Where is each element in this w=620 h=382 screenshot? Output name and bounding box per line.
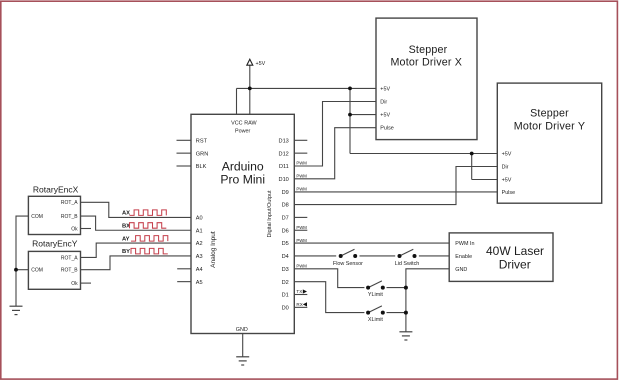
svg-text:D8: D8 — [282, 203, 289, 209]
svg-text:Flow Sensor: Flow Sensor — [333, 261, 363, 267]
svg-text:RX: RX — [296, 302, 302, 307]
svg-text:+5V: +5V — [380, 113, 390, 119]
svg-text:40W Laser: 40W Laser — [486, 244, 544, 258]
svg-text:D2: D2 — [282, 280, 289, 286]
svg-text:RotaryEncY: RotaryEncY — [32, 238, 78, 248]
svg-text:+5V: +5V — [502, 177, 512, 183]
svg-text:Ok: Ok — [71, 281, 78, 287]
svg-text:AX: AX — [122, 211, 130, 217]
svg-text:Dir: Dir — [380, 99, 387, 105]
svg-text:D3: D3 — [282, 267, 289, 273]
svg-text:A5: A5 — [196, 280, 203, 286]
svg-text:XLimit: XLimit — [368, 317, 383, 323]
svg-text:Pulse: Pulse — [380, 126, 394, 132]
svg-text:Pro Mini: Pro Mini — [220, 173, 265, 187]
svg-text:D9: D9 — [282, 190, 289, 196]
svg-text:D4: D4 — [282, 254, 289, 260]
svg-text:GRN: GRN — [196, 151, 208, 157]
svg-text:ROT_A: ROT_A — [61, 200, 78, 206]
svg-text:Dir: Dir — [502, 164, 509, 170]
svg-text:GND: GND — [236, 327, 248, 333]
svg-text:D1: D1 — [282, 293, 289, 299]
svg-text:D7: D7 — [282, 216, 289, 222]
svg-text:YLimit: YLimit — [368, 292, 383, 298]
svg-text:+5V: +5V — [502, 151, 512, 157]
svg-text:PWM: PWM — [296, 161, 307, 166]
svg-text:A1: A1 — [196, 228, 203, 234]
svg-text:D0: D0 — [282, 305, 289, 311]
svg-text:Pulse: Pulse — [502, 190, 515, 196]
svg-text:GND: GND — [455, 267, 467, 273]
svg-text:PWM In: PWM In — [455, 241, 474, 247]
svg-text:Stepper: Stepper — [409, 44, 448, 56]
svg-text:ROT_B: ROT_B — [61, 268, 78, 274]
svg-text:Ok: Ok — [71, 226, 78, 232]
svg-text:AY: AY — [122, 236, 130, 242]
svg-text:+5V: +5V — [256, 61, 266, 67]
svg-text:RAW: RAW — [244, 121, 257, 127]
svg-text:ROT_A: ROT_A — [61, 255, 78, 261]
svg-text:COM: COM — [31, 214, 43, 220]
svg-text:D10: D10 — [279, 177, 289, 183]
svg-text:PWM: PWM — [296, 264, 307, 269]
svg-text:PWM: PWM — [296, 238, 307, 243]
svg-text:ROT_B: ROT_B — [61, 214, 78, 220]
svg-text:D11: D11 — [279, 164, 289, 170]
svg-text:D5: D5 — [282, 241, 289, 247]
svg-text:Digital Input/Output: Digital Input/Output — [267, 190, 273, 238]
svg-text:Motor Driver Y: Motor Driver Y — [514, 120, 586, 132]
svg-text:RotaryEncX: RotaryEncX — [33, 185, 79, 195]
svg-text:PWM: PWM — [296, 225, 307, 230]
svg-text:A4: A4 — [196, 267, 203, 273]
svg-text:+5V: +5V — [380, 86, 390, 92]
svg-text:A0: A0 — [196, 216, 203, 222]
svg-text:RST: RST — [196, 138, 208, 144]
svg-text:COM: COM — [31, 268, 43, 274]
svg-text:BY: BY — [122, 249, 130, 255]
svg-text:A3: A3 — [196, 254, 203, 260]
svg-text:VCC: VCC — [231, 121, 242, 127]
svg-text:Enable: Enable — [455, 254, 472, 260]
svg-text:PWM: PWM — [296, 174, 307, 179]
svg-text:Driver: Driver — [499, 257, 531, 271]
svg-text:Lid Switch: Lid Switch — [395, 261, 420, 267]
svg-text:Analog Input: Analog Input — [210, 231, 217, 268]
svg-text:PWM: PWM — [296, 186, 307, 191]
svg-text:Motor Driver X: Motor Driver X — [390, 56, 462, 68]
svg-text:TX: TX — [296, 289, 302, 294]
svg-text:Stepper: Stepper — [530, 108, 569, 120]
svg-text:D12: D12 — [279, 151, 289, 157]
svg-text:Power: Power — [235, 129, 250, 135]
svg-text:D13: D13 — [279, 138, 289, 144]
svg-text:A2: A2 — [196, 241, 203, 247]
svg-text:D6: D6 — [282, 228, 289, 234]
svg-text:BLK: BLK — [196, 164, 207, 170]
svg-text:Arduino: Arduino — [222, 160, 264, 174]
svg-text:BX: BX — [122, 223, 130, 229]
